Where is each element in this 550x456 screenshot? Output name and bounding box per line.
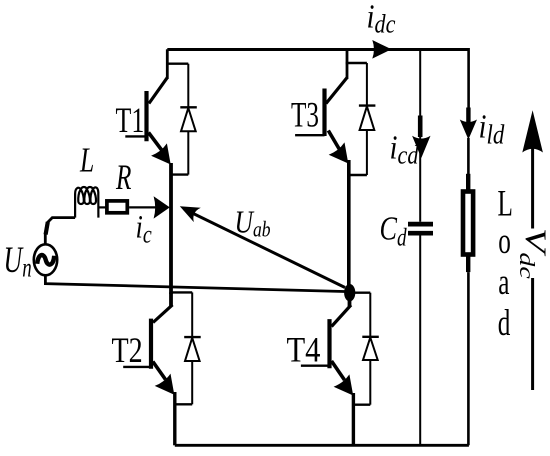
wire right leg to node b bbox=[347, 160, 351, 292]
diode D3 bbox=[359, 63, 376, 175]
label R bbox=[115, 157, 131, 198]
label i_ld bbox=[479, 107, 505, 150]
wire overdraw near source top bbox=[46, 222, 48, 235]
wire T3 collector corner bbox=[346, 49, 349, 79]
label T3 bbox=[291, 94, 319, 135]
label V_dc (rotated) bbox=[515, 228, 550, 279]
wire T2 loop bottom bbox=[175, 403, 192, 405]
label Load (vertical letters) bbox=[498, 183, 513, 343]
label i_dc bbox=[367, 0, 396, 39]
arrow i_dc on top bus bbox=[372, 40, 391, 59]
diode D1 bbox=[180, 64, 197, 175]
label i_cd bbox=[390, 128, 420, 170]
AC source U_n bbox=[34, 244, 57, 275]
wire R to node a bbox=[129, 206, 156, 208]
svg-text:L: L bbox=[498, 183, 513, 224]
wire load branch upper bbox=[467, 48, 470, 110]
wire inductor to resistor bbox=[98, 206, 106, 208]
label C_d bbox=[380, 209, 408, 251]
svg-text:a: a bbox=[498, 261, 509, 302]
label L bbox=[79, 141, 94, 180]
wire T3 loop bottom bbox=[348, 174, 367, 176]
svg-text:d: d bbox=[498, 302, 511, 343]
label U_n bbox=[4, 240, 32, 284]
load element (rectangle with bold stems) bbox=[463, 174, 473, 272]
wire T1 loop bottom bbox=[170, 173, 188, 175]
svg-text:L: L bbox=[79, 141, 94, 180]
diode D2 bbox=[184, 292, 201, 404]
diode D4 bbox=[362, 293, 379, 405]
wire load branch to load bbox=[467, 138, 470, 175]
label U_ab bbox=[235, 205, 271, 242]
transistor T3 bbox=[295, 78, 348, 164]
wire load branch lower bbox=[467, 272, 470, 445]
capacitor Cd plates bbox=[408, 224, 433, 233]
wire capacitor branch lower bbox=[419, 236, 421, 446]
arrow U_ab from node b to node a bbox=[180, 206, 345, 287]
wire source top to inductor bbox=[45, 218, 75, 245]
svg-text:T2: T2 bbox=[112, 330, 143, 370]
svg-text:T4: T4 bbox=[287, 330, 321, 370]
inductor L bbox=[75, 187, 98, 218]
svg-text:o: o bbox=[498, 220, 511, 261]
wire left leg (node a) bbox=[169, 163, 173, 294]
wire T4 diode branch top bbox=[352, 292, 370, 294]
label T2 bbox=[112, 330, 143, 370]
wire source bottom to node b bbox=[45, 275, 349, 292]
transistor T1 bbox=[125, 78, 170, 165]
svg-text:T1: T1 bbox=[116, 100, 145, 140]
label T1 bbox=[116, 100, 145, 140]
transistor T4 bbox=[301, 298, 353, 396]
node b junction dot bbox=[344, 284, 355, 301]
wire T3 diode branch top bbox=[346, 62, 367, 64]
arrow i_ld bbox=[460, 108, 477, 140]
wire T4 emitter leg bbox=[352, 393, 355, 445]
wire bottom bus bbox=[175, 444, 469, 447]
wire T2 emitter leg bbox=[173, 392, 176, 445]
wire capacitor branch upper bbox=[419, 49, 421, 222]
svg-text:T3: T3 bbox=[291, 94, 319, 135]
label i_c bbox=[136, 209, 152, 248]
arrow i_c into node a bbox=[154, 196, 170, 218]
wire top DC bus bbox=[167, 48, 468, 51]
wire T2 diode branch top bbox=[171, 291, 192, 293]
arrow V_dc (up) bbox=[522, 110, 543, 390]
arrow i_cd bbox=[412, 116, 430, 159]
transistor T2 bbox=[123, 292, 174, 394]
wire T1 collector corner bbox=[166, 49, 169, 79]
label T4 bbox=[287, 330, 321, 370]
svg-text:R: R bbox=[115, 157, 131, 198]
resistor R bbox=[107, 201, 127, 213]
wire T4 loop bottom bbox=[353, 404, 370, 406]
wire T1 diode branch top bbox=[166, 63, 188, 65]
